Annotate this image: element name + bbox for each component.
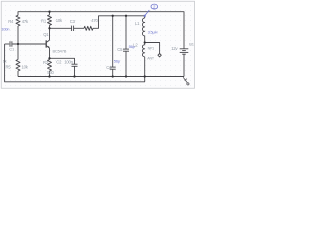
- svg-text:C4: C4: [106, 65, 112, 70]
- svg-text:BC547B: BC547B: [53, 48, 67, 53]
- svg-text:56p: 56p: [114, 59, 121, 64]
- svg-text:R2: R2: [43, 60, 49, 65]
- svg-text:C3: C3: [70, 19, 76, 24]
- svg-text:100n: 100n: [64, 59, 73, 64]
- svg-text:ANT: ANT: [147, 56, 155, 60]
- svg-text:C5: C5: [117, 47, 123, 52]
- svg-text:3.5µH: 3.5µH: [148, 29, 158, 34]
- svg-text:Q1: Q1: [43, 32, 49, 37]
- svg-text:R1: R1: [41, 19, 47, 24]
- svg-text:R5: R5: [6, 65, 12, 70]
- svg-text:100n: 100n: [1, 27, 9, 32]
- svg-text:560: 560: [47, 70, 54, 75]
- svg-text:470: 470: [91, 18, 98, 23]
- svg-text:56p: 56p: [129, 44, 136, 49]
- svg-text:R4: R4: [8, 19, 14, 24]
- svg-text:1k: 1k: [3, 60, 7, 64]
- svg-text:C2: C2: [56, 59, 62, 64]
- svg-text:NP1: NP1: [148, 47, 155, 51]
